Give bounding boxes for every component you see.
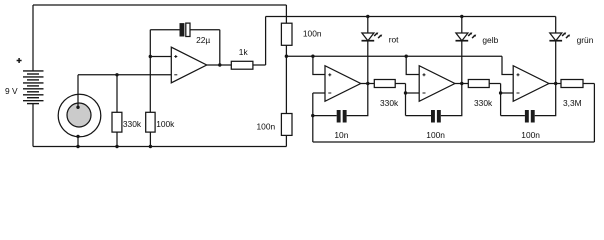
capacitor 100n lower (281, 114, 292, 136)
wire LED D1 cathode (367, 41, 369, 84)
op-amp U2 (325, 66, 361, 102)
wire stage3 minus input (501, 92, 514, 94)
wire feedback top left segment (150, 29, 179, 31)
node plus input junction (149, 55, 152, 58)
LED D3 green (549, 17, 570, 41)
node 330k ground junction (115, 145, 118, 148)
op-amp U4 plus marker (517, 73, 520, 76)
capacitor 10n left lead (313, 115, 337, 117)
wire stage1 minus chain vertical (312, 93, 314, 142)
wire feedback vertical to 100k (149, 30, 151, 113)
battery 9V (23, 71, 44, 104)
wire stage1 bias drop (313, 56, 325, 74)
wire top 9V rail (33, 4, 286, 6)
wire feedback return riser (593, 84, 595, 143)
wire stage2 bias drop (406, 56, 419, 74)
node output feedback junction (218, 63, 221, 66)
svg-text:gelb: gelb (482, 35, 498, 45)
wire stage1 minus input (313, 92, 325, 94)
wire battery negative lead (32, 104, 34, 147)
resistor 330k stage1 (374, 80, 395, 88)
op-amp U2 minus marker (328, 92, 331, 94)
wire microphone bottom lead (77, 137, 79, 147)
svg-text:22µ: 22µ (196, 35, 210, 45)
svg-text:330k: 330k (474, 98, 493, 108)
svg-text:100n: 100n (521, 130, 540, 140)
wire 100k bottom lead (149, 132, 151, 146)
op-amp U3 minus marker (423, 92, 426, 94)
wire LED D3 cathode (555, 41, 557, 84)
svg-text:1k: 1k (239, 47, 249, 57)
wire stage3 output (549, 83, 561, 85)
wire 9V to 100n riser (285, 5, 287, 23)
resistor 330k stage2 (468, 80, 489, 88)
wire bottom ground rail left (33, 146, 286, 148)
node stage1 cap junction (311, 114, 314, 117)
op-amp U1 minus marker (174, 74, 177, 76)
wire stage3 bias drop (502, 56, 513, 74)
node stage1 output junction (366, 82, 369, 85)
svg-text:100n: 100n (303, 28, 322, 38)
node bias rail left junction (285, 55, 288, 58)
LED D1 red (362, 17, 383, 41)
resistor 100k (146, 112, 155, 132)
node microphone shell terminal (76, 135, 79, 138)
wire 330k top lead (116, 75, 118, 113)
resistor 1k (231, 61, 253, 69)
op-amp U4 minus marker (517, 92, 520, 94)
wire op-amp U1 output (207, 64, 232, 66)
node stage1 bias junction (311, 55, 314, 58)
wire feedback vertical from output (219, 30, 221, 65)
node microphone inner terminal (76, 106, 79, 109)
svg-text:10n: 10n (334, 130, 348, 140)
node stage2 minus junction (404, 91, 407, 94)
node LED D1 anode junction (366, 15, 369, 18)
op-amp U2 plus marker (328, 73, 331, 76)
node 100k ground junction (149, 145, 152, 148)
wire microphone top lead (77, 75, 79, 108)
wire stage2 minus drop (405, 84, 407, 116)
wire battery positive lead (32, 5, 34, 71)
LED D2 yellow (456, 17, 477, 41)
wire 3,3M right lead (583, 83, 594, 85)
svg-text:9 V: 9 V (5, 86, 18, 96)
node LED D2 anode junction (460, 15, 463, 18)
resistor 330k (112, 112, 122, 132)
svg-text:330k: 330k (123, 119, 142, 129)
capacitor 100n stage2 right lead (441, 84, 462, 116)
wire 100n upper to bias node (285, 45, 287, 113)
op-amp U1 (171, 47, 206, 83)
wire stage2 output (455, 83, 468, 85)
capacitor 100n stage3 right lead (535, 84, 556, 116)
wire feedback top right segment (190, 29, 220, 31)
wire feedback return rail (313, 141, 595, 143)
capacitor 10n right lead (347, 84, 368, 116)
capacitor 10n (337, 110, 347, 123)
node stage2 output junction (460, 82, 463, 85)
wire 330k stage2 to stage3 (489, 83, 500, 85)
battery plus sign (17, 58, 22, 63)
capacitor 22µ polarized (180, 23, 191, 36)
wire stage3 minus drop (500, 84, 502, 116)
wire bias rail (286, 55, 502, 57)
microphone M1 (58, 94, 101, 137)
op-amp U3 plus marker (423, 73, 426, 76)
capacitor 100n stage2 (431, 110, 441, 123)
op-amp U1 plus marker (174, 55, 177, 58)
node 330k top junction (115, 73, 118, 76)
wire 100n lower ground lead (285, 135, 287, 146)
node stage3 output junction (554, 82, 557, 85)
capacitor 100n stage3 left lead (501, 115, 525, 117)
wire microphone to op-amp minus input (78, 74, 171, 76)
svg-text:100n: 100n (257, 121, 276, 131)
wire 330k bottom lead (116, 132, 118, 146)
wire stage2 minus input (406, 92, 420, 94)
op-amp U3 (419, 66, 455, 102)
capacitor 100n upper (281, 23, 292, 45)
resistor 3,3M (561, 80, 583, 88)
wire LED anode rail (266, 16, 556, 18)
wire LED D2 cathode (461, 41, 463, 84)
node stage3 minus junction (499, 91, 502, 94)
svg-text:330k: 330k (380, 98, 399, 108)
capacitor 100n stage3 (525, 110, 535, 123)
op-amp U4 (513, 66, 549, 102)
svg-text:rot: rot (389, 35, 399, 45)
node microphone ground junction (76, 145, 79, 148)
wire LED rail riser (265, 17, 267, 66)
wire 1k to LED rail (253, 64, 266, 66)
svg-text:3,3M: 3,3M (563, 98, 582, 108)
svg-text:100n: 100n (426, 130, 445, 140)
capacitor 100n stage2 left lead (406, 115, 432, 117)
node stage2 bias junction (405, 55, 408, 58)
svg-text:grün: grün (577, 35, 594, 45)
wire 330k stage1 to stage2 (395, 83, 405, 85)
svg-text:100k: 100k (156, 119, 175, 129)
wire op-amp plus input (150, 56, 171, 58)
wire stage1 output (361, 83, 375, 85)
